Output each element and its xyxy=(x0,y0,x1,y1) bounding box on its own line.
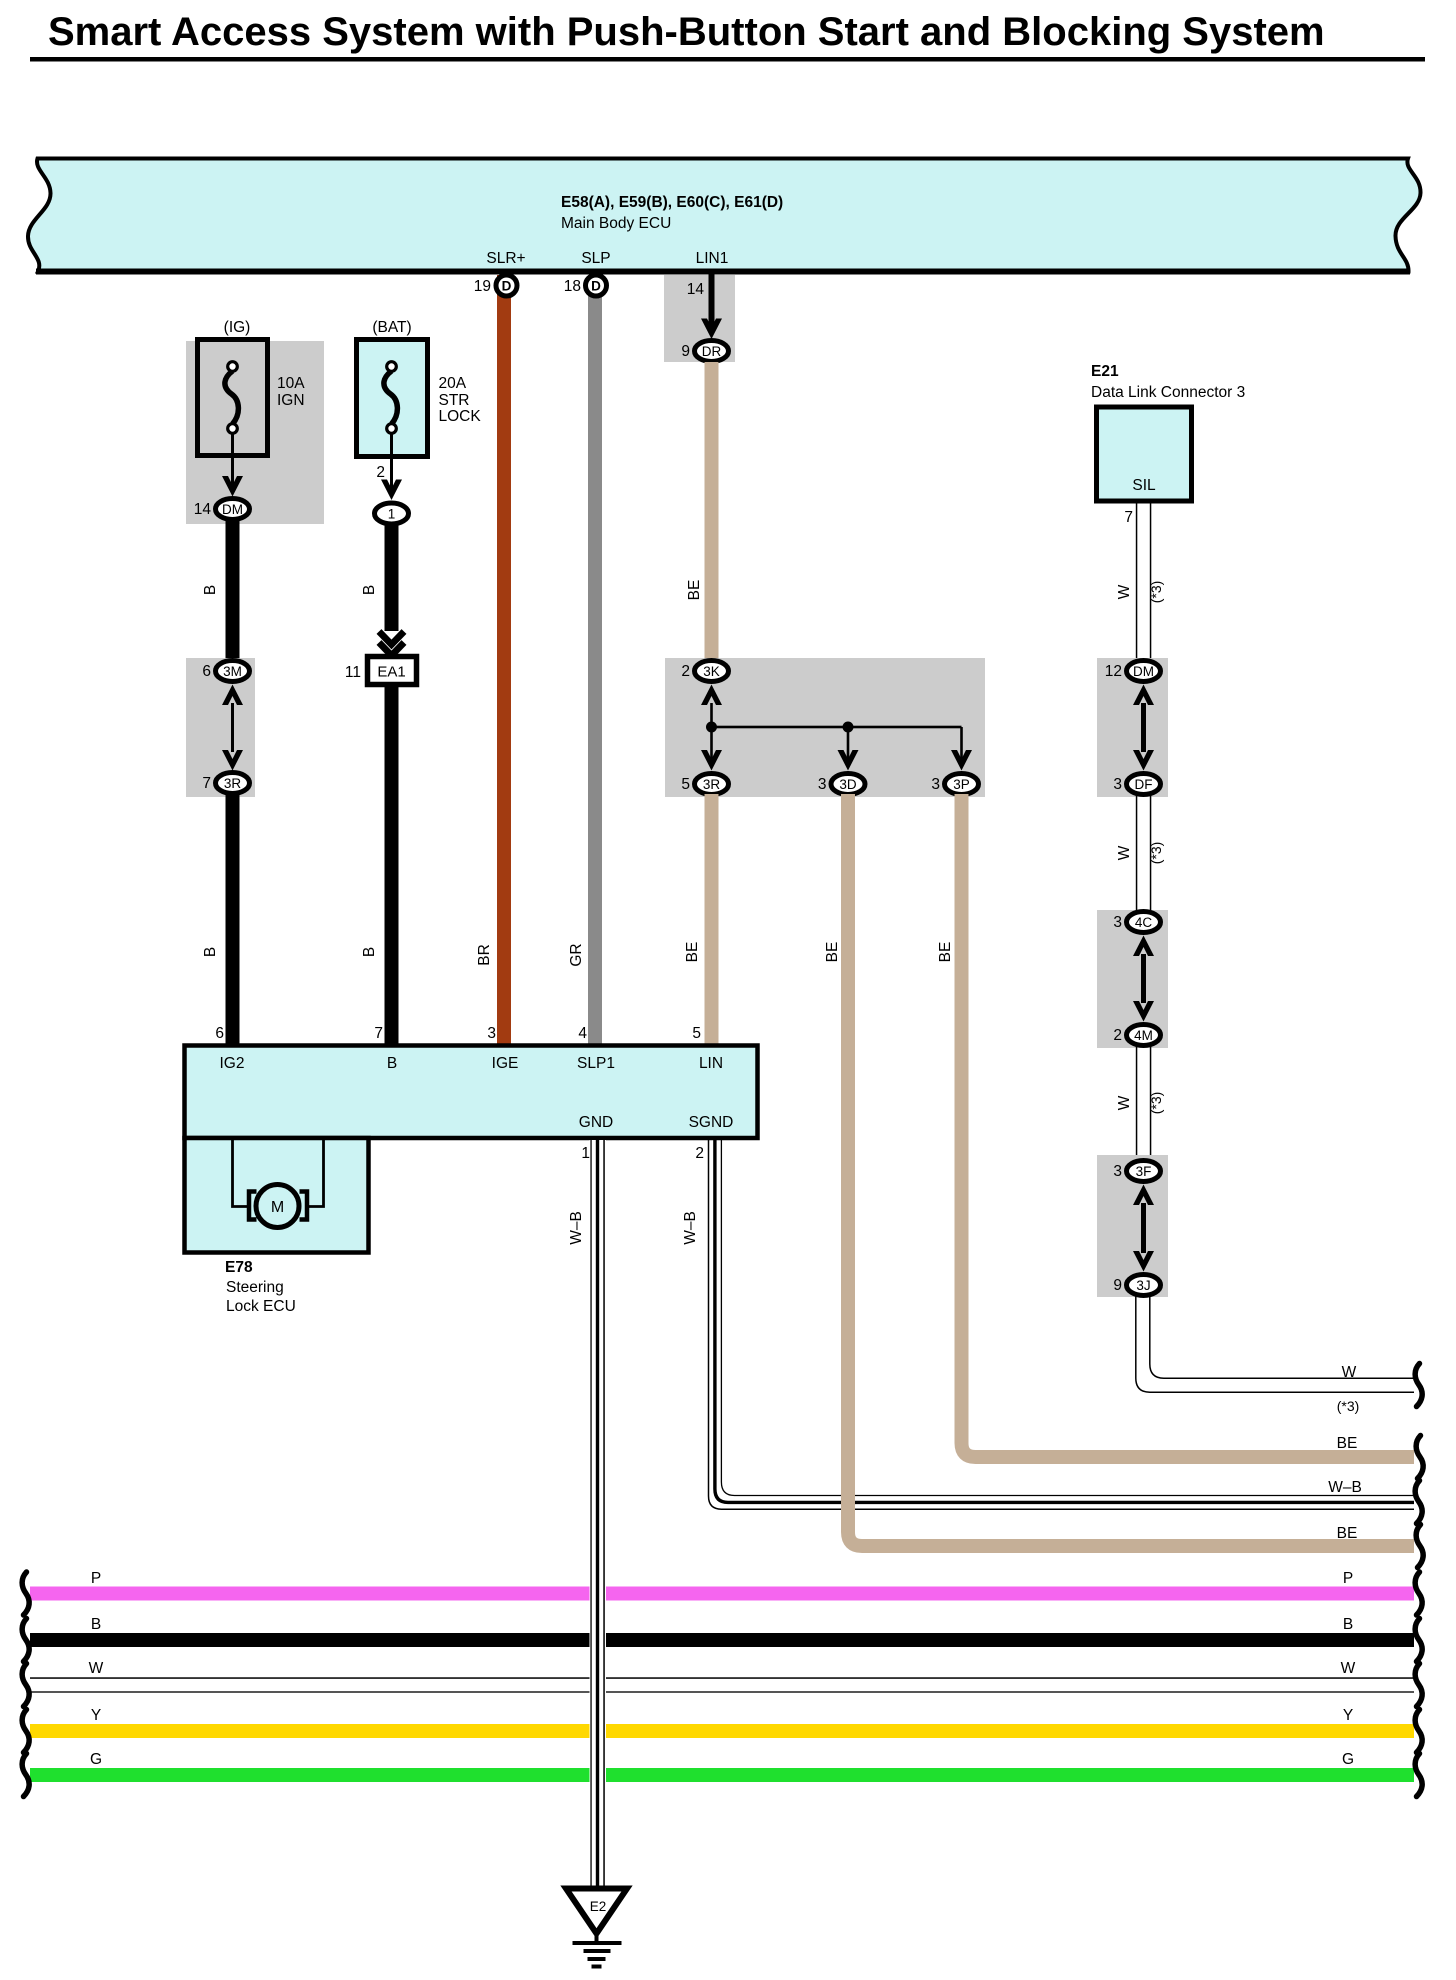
connector DM pin 12 xyxy=(1105,661,1161,682)
svg-text:Main Body ECU: Main Body ECU xyxy=(561,215,671,232)
svg-text:P: P xyxy=(91,1570,101,1587)
svg-text:4C: 4C xyxy=(1135,915,1153,930)
connector 3J pin 9 xyxy=(1113,1275,1160,1296)
bus wire across junctions xyxy=(710,726,961,729)
svg-text:B: B xyxy=(202,585,219,595)
wire B (black) xyxy=(30,1633,1414,1647)
svg-text:G: G xyxy=(1342,1751,1354,1768)
svg-text:3: 3 xyxy=(1113,914,1122,931)
svg-text:Y: Y xyxy=(91,1707,101,1724)
svg-text:B: B xyxy=(361,947,378,957)
svg-text:(*3): (*3) xyxy=(1337,1398,1360,1414)
ground E2 xyxy=(566,1889,627,1969)
svg-text:2: 2 xyxy=(681,663,690,680)
svg-text:3J: 3J xyxy=(1136,1278,1150,1293)
wire BE (tan) 3R to E78 LIN xyxy=(705,794,719,1046)
wire W (white) xyxy=(30,1677,1414,1693)
svg-text:P: P xyxy=(1343,1570,1353,1587)
svg-text:W–B: W–B xyxy=(568,1211,585,1245)
svg-text:(*3): (*3) xyxy=(1148,581,1164,604)
svg-text:5: 5 xyxy=(692,1025,701,1042)
arrow into 3R xyxy=(701,750,722,771)
svg-text:B: B xyxy=(387,1055,397,1072)
svg-text:DM: DM xyxy=(222,502,243,517)
pin 18 connector D xyxy=(564,275,607,296)
break squiggle G right xyxy=(1415,1754,1422,1797)
svg-text:W: W xyxy=(1116,1095,1133,1110)
fuse 20A STR LOCK (BAT) xyxy=(357,319,482,457)
svg-text:W: W xyxy=(1116,845,1133,860)
svg-text:14: 14 xyxy=(687,281,705,298)
svg-text:2: 2 xyxy=(376,464,385,481)
svg-text:2: 2 xyxy=(1113,1027,1122,1044)
connector DF pin 3 xyxy=(1113,774,1160,795)
wire 3K to junction xyxy=(710,703,713,728)
svg-text:12: 12 xyxy=(1105,663,1122,680)
gray panel behind 3F/3J xyxy=(1097,1155,1168,1297)
connector 4M pin 2 xyxy=(1113,1025,1160,1046)
break squiggle W xyxy=(1415,1364,1422,1407)
svg-text:7: 7 xyxy=(1124,509,1133,526)
svg-text:W: W xyxy=(1342,1364,1357,1381)
break squiggle W right xyxy=(1415,1664,1422,1707)
svg-text:(*3): (*3) xyxy=(1148,1092,1164,1115)
gray panel behind IG fuse xyxy=(186,341,324,524)
svg-text:2: 2 xyxy=(695,1145,704,1162)
svg-text:4M: 4M xyxy=(1134,1028,1153,1043)
svg-text:B: B xyxy=(91,1616,101,1633)
svg-text:3K: 3K xyxy=(703,664,720,679)
svg-text:DF: DF xyxy=(1135,777,1153,792)
connector E21 Data Link Connector 3 xyxy=(1091,363,1245,501)
svg-text:IG2: IG2 xyxy=(220,1055,245,1072)
connector DM pin 14 xyxy=(194,499,250,520)
ECU E78 Steering Lock ECU xyxy=(185,1046,758,1253)
svg-text:Lock ECU: Lock ECU xyxy=(226,1298,296,1315)
gray panel behind DM/DF xyxy=(1097,658,1168,797)
svg-text:9: 9 xyxy=(1113,1277,1122,1294)
wire G (green) xyxy=(30,1768,1414,1782)
svg-text:3R: 3R xyxy=(703,777,721,792)
wire BE (tan) 3P to right edge xyxy=(962,794,1415,1457)
svg-text:14: 14 xyxy=(194,501,212,518)
break squiggle B left xyxy=(22,1619,29,1662)
ground point EA1 pin 11 xyxy=(345,657,417,685)
svg-text:3F: 3F xyxy=(1136,1164,1152,1179)
arrow into 3D xyxy=(838,750,859,771)
Main Body ECU banner E58/E59/E60/E61 xyxy=(28,159,1421,275)
break squiggle Y right xyxy=(1415,1710,1422,1753)
svg-text:LIN1: LIN1 xyxy=(696,250,729,267)
svg-text:B: B xyxy=(1343,1616,1353,1633)
svg-text:W: W xyxy=(1341,1660,1356,1677)
svg-text:Steering: Steering xyxy=(226,1279,284,1296)
svg-text:(*3): (*3) xyxy=(1148,842,1164,865)
svg-text:SIL: SIL xyxy=(1132,477,1156,494)
svg-text:LIN: LIN xyxy=(699,1055,723,1072)
motor M inside E78 xyxy=(233,1140,324,1228)
svg-text:D: D xyxy=(502,279,512,294)
svg-text:IGE: IGE xyxy=(492,1055,519,1072)
svg-text:19: 19 xyxy=(474,278,491,295)
connector 3P pin 3 xyxy=(931,774,978,795)
svg-text:SLP: SLP xyxy=(581,250,610,267)
svg-text:SGND: SGND xyxy=(689,1114,734,1131)
junction arrows 4C-4M xyxy=(1133,936,1154,1022)
connector 3F pin 3 xyxy=(1113,1161,1160,1182)
svg-text:Data Link Connector 3: Data Link Connector 3 xyxy=(1091,384,1245,401)
break squiggle B right xyxy=(1415,1619,1422,1662)
connector 3K pin 2 xyxy=(681,661,728,682)
node junction left xyxy=(706,722,717,733)
break squiggle BE lower xyxy=(1416,1525,1423,1568)
connector 3R pin 7 xyxy=(202,773,249,794)
wire B (black) EA1 to E78 B xyxy=(385,685,399,1047)
connector 3R pin 5 xyxy=(681,774,728,795)
svg-text:BE: BE xyxy=(824,942,841,963)
svg-text:18: 18 xyxy=(564,278,581,295)
svg-text:3D: 3D xyxy=(839,777,857,792)
connector 1 xyxy=(375,503,409,524)
wire fuse IG to DM xyxy=(231,433,234,488)
pin 19 connector D xyxy=(474,275,517,296)
svg-text:20A: 20A xyxy=(439,375,467,392)
svg-text:SLR+: SLR+ xyxy=(486,250,525,267)
svg-text:6: 6 xyxy=(215,1025,224,1042)
fuse 10A IGN (IG) xyxy=(198,319,306,456)
wire junction to 3D arrow xyxy=(847,727,850,760)
svg-text:BE: BE xyxy=(684,942,701,963)
svg-text:Y: Y xyxy=(1343,1707,1353,1724)
svg-text:Smart Access System with Push-: Smart Access System with Push-Button Sta… xyxy=(48,10,1325,54)
svg-text:(IG): (IG) xyxy=(224,319,251,336)
svg-text:3: 3 xyxy=(818,776,827,793)
svg-text:7: 7 xyxy=(202,775,211,792)
svg-text:BE: BE xyxy=(937,942,954,963)
svg-text:D: D xyxy=(591,279,601,294)
svg-text:M: M xyxy=(271,1199,284,1216)
wire BE (tan) DR to 3K xyxy=(705,362,719,659)
wire bus end to 3P arrow xyxy=(960,727,963,760)
connector 3D pin 3 xyxy=(818,774,865,795)
svg-text:5: 5 xyxy=(681,776,690,793)
wire B (black) 3R to E78 IG2 xyxy=(226,793,240,1046)
svg-text:LOCK: LOCK xyxy=(439,408,482,425)
wire junction to 3R arrow xyxy=(710,727,713,760)
svg-text:GR: GR xyxy=(568,943,585,966)
svg-text:(BAT): (BAT) xyxy=(372,319,411,336)
svg-text:11: 11 xyxy=(345,664,361,681)
wire W (white) 3J to right edge xyxy=(1136,1295,1414,1392)
wire W (white) DF to 4C xyxy=(1136,794,1152,912)
wire W-B SGND to right edge xyxy=(709,1140,1415,1509)
arrow into DR xyxy=(701,319,722,340)
svg-text:10A: 10A xyxy=(277,375,305,392)
svg-text:3: 3 xyxy=(1113,776,1122,793)
svg-text:B: B xyxy=(202,947,219,957)
svg-text:BE: BE xyxy=(686,580,703,601)
wire fuse BAT to connector 1 xyxy=(390,433,393,493)
svg-text:3R: 3R xyxy=(224,776,242,791)
svg-text:GND: GND xyxy=(579,1114,613,1131)
svg-text:3: 3 xyxy=(487,1025,496,1042)
break squiggle G left xyxy=(22,1754,29,1797)
svg-text:IGN: IGN xyxy=(277,392,305,409)
svg-text:STR: STR xyxy=(439,392,470,409)
svg-text:E78: E78 xyxy=(225,1259,253,1276)
double chevron into EA1 xyxy=(379,632,404,656)
wire W (white) SIL to DM xyxy=(1136,501,1152,658)
svg-text:3M: 3M xyxy=(223,664,242,679)
svg-text:G: G xyxy=(90,1751,102,1768)
connector 4C pin 3 xyxy=(1113,912,1160,933)
break squiggle W left xyxy=(22,1664,29,1707)
break squiggle Y left xyxy=(22,1710,29,1753)
svg-text:BE: BE xyxy=(1337,1435,1358,1452)
svg-text:E58(A), E59(B), E60(C), E61(D): E58(A), E59(B), E60(C), E61(D) xyxy=(561,194,783,211)
wire B (black) DM to 3M xyxy=(226,519,240,660)
arrow into 3P xyxy=(951,750,972,771)
node junction middle xyxy=(843,722,854,733)
break squiggle P right xyxy=(1415,1572,1422,1615)
wire W-B GND to E2 ground xyxy=(590,1140,607,1888)
svg-text:W–B: W–B xyxy=(1328,1479,1362,1496)
svg-text:3P: 3P xyxy=(953,777,970,792)
svg-text:1: 1 xyxy=(388,507,396,522)
svg-text:SLP1: SLP1 xyxy=(577,1055,615,1072)
junction arrows 3M-3R xyxy=(222,685,243,771)
svg-text:6: 6 xyxy=(202,663,211,680)
svg-text:W: W xyxy=(1116,584,1133,599)
svg-text:E2: E2 xyxy=(590,1899,607,1914)
junction arrows DM-DF xyxy=(1133,685,1154,771)
junction arrow up into 3K xyxy=(701,685,722,706)
gray panel behind LIN1 pin 14 / DR xyxy=(664,275,735,362)
svg-text:DM: DM xyxy=(1133,664,1154,679)
svg-text:7: 7 xyxy=(374,1025,383,1042)
svg-text:E21: E21 xyxy=(1091,363,1119,380)
break squiggle W-B xyxy=(1415,1481,1422,1524)
svg-text:4: 4 xyxy=(578,1025,587,1042)
wire BR SLR+ (brown) from pin 19 to E78 IGE xyxy=(497,275,511,1046)
arrow into DM xyxy=(222,476,243,497)
svg-text:EA1: EA1 xyxy=(377,664,405,681)
junction arrows 3F-3J xyxy=(1133,1185,1154,1272)
svg-text:DR: DR xyxy=(702,344,722,359)
wire W (white) 4M to 3F xyxy=(1136,1045,1152,1160)
svg-text:W: W xyxy=(89,1660,104,1677)
arrow into connector 1 xyxy=(381,480,402,501)
gray panel behind 4C/4M xyxy=(1097,910,1168,1048)
svg-text:3: 3 xyxy=(1113,1163,1122,1180)
wire GR SLP (gray) from pin 18 to E78 SLP1 xyxy=(588,275,602,1046)
svg-text:9: 9 xyxy=(681,343,690,360)
wire Y (yellow) xyxy=(30,1724,1414,1738)
svg-text:W–B: W–B xyxy=(682,1211,699,1245)
wire B (black) connector 1 to EA1 xyxy=(385,523,399,631)
wire BE (tan) 3D to right edge xyxy=(848,794,1414,1546)
label E78 Steering Lock ECU xyxy=(225,1259,296,1315)
svg-text:1: 1 xyxy=(581,1145,590,1162)
gray panel behind 3M/3R xyxy=(186,658,255,797)
connector DR pin 9 xyxy=(681,341,728,362)
break squiggle P left xyxy=(22,1572,29,1615)
svg-text:BR: BR xyxy=(476,944,493,966)
wire P (violet) xyxy=(30,1587,1414,1601)
svg-text:3: 3 xyxy=(931,776,940,793)
connector 3M pin 6 xyxy=(202,661,249,682)
break squiggle BE upper xyxy=(1416,1436,1423,1479)
wire LIN1 pin 14 (black) xyxy=(709,274,715,331)
svg-text:BE: BE xyxy=(1337,1525,1358,1542)
gray panel behind 3K/3R/3D/3P xyxy=(665,658,985,797)
svg-text:B: B xyxy=(361,585,378,595)
